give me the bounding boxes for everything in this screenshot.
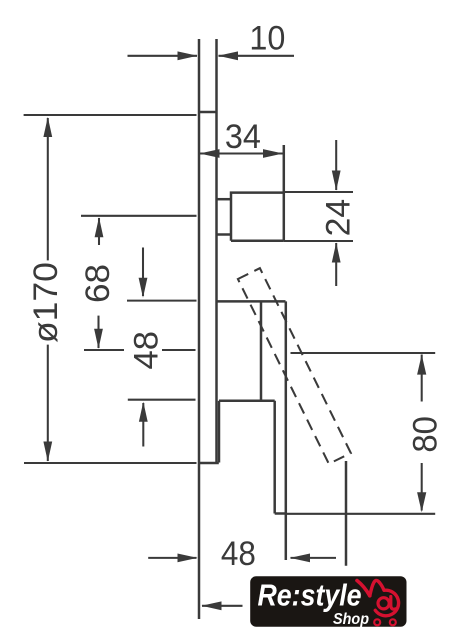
dim 48 bottom left-arrow line (291, 557, 337, 559)
arrowhead wall pointer (points left) (202, 601, 222, 610)
dim 34 line (200, 152, 283, 154)
arrowhead 24 upper (points down) (332, 171, 341, 191)
dim 68 bottom ext line right (162, 349, 196, 351)
svg-text:48: 48 (221, 535, 256, 573)
spout column left edge (273, 401, 276, 514)
dim 48 down arrow line (142, 248, 144, 297)
arrowhead 48 up (points up) (139, 402, 148, 422)
svg-text:Shop: Shop (333, 611, 369, 628)
logo @ inner stem (391, 597, 396, 610)
dim 68 top ext line (81, 215, 197, 217)
arrowhead 48 bottom right (points right) (178, 554, 198, 563)
wall pointer arrow line (202, 605, 243, 607)
logo @ inner bowl (378, 598, 389, 609)
dim 170 line upper (47, 118, 49, 260)
logo wheel right (390, 619, 396, 625)
arrowhead 10 left (points right) (178, 51, 198, 60)
body left lower edge (218, 401, 221, 463)
svg-text:10: 10 (249, 20, 285, 58)
dim 10 right arrow line (219, 55, 295, 57)
knob stem top (217, 198, 232, 201)
logo box (250, 576, 406, 627)
dim 80 lower arrow line (421, 463, 423, 511)
spout column bottom cap (275, 512, 286, 515)
dim 80 top ext line (291, 352, 436, 354)
arrowhead 24 lower (points up) (332, 243, 341, 263)
arrowhead 34 right (points right) (263, 149, 283, 158)
dim 68 down arrow line (97, 316, 99, 348)
arrowhead 68 up (points up) (95, 217, 104, 237)
arrowhead 48 down (points down) (139, 278, 148, 298)
svg-text:48: 48 (127, 331, 165, 370)
dim 48 top ext line (127, 300, 197, 302)
dim 170 top ext line (24, 114, 197, 116)
dim 48 up arrow line (142, 403, 144, 447)
arrowhead 48 bottom left (points left) (290, 554, 310, 563)
plate right edge (215, 39, 218, 463)
dim 24 top ext line (284, 191, 353, 193)
body inner vertical (260, 301, 263, 400)
dim 170 bottom ext line (24, 462, 197, 464)
logo cart handle (357, 581, 370, 596)
arrowhead 80 up (points up) (417, 355, 426, 375)
svg-text:ø170: ø170 (27, 262, 65, 343)
svg-text:80: 80 (407, 416, 445, 453)
dim 80 upper arrow line (421, 355, 423, 402)
svg-text:68: 68 (79, 264, 117, 303)
logo wheel left (374, 619, 380, 625)
dim 48 bottom ext line (128, 399, 196, 401)
svg-text:34: 34 (225, 118, 261, 156)
dim 80 bottom ext line (287, 513, 435, 515)
arrowhead 34 left (points left) (200, 149, 220, 158)
dim 24 bottom ext line (284, 240, 353, 242)
body lower step horizontal (219, 400, 275, 403)
dim 68 up arrow line (98, 218, 100, 245)
arrowhead 80 down (points down) (417, 492, 426, 512)
svg-text:Re:style: Re:style (258, 578, 362, 613)
svg-text:24: 24 (319, 199, 357, 237)
dim 170 line lower (47, 345, 49, 461)
logo @ outer ring with flourish (370, 580, 399, 615)
knob outline (231, 193, 284, 241)
knob right edge / extension line (283, 145, 286, 241)
plate section tick top (199, 111, 218, 114)
body right edge (285, 301, 288, 560)
lever tip projection line (345, 461, 348, 566)
arrowhead 170 bottom (points down) (43, 442, 52, 462)
dim 68 bottom ext line left (84, 349, 124, 351)
plate bottom cap (199, 462, 219, 465)
body top edge (217, 300, 286, 303)
dim 48 bottom right-arrow line (148, 557, 196, 559)
lever handle (dashed, rotated) (238, 268, 351, 464)
dim 10 left arrow line (128, 55, 198, 57)
arrowhead 170 top (points up) (43, 117, 52, 137)
wall line (plate left edge) (198, 39, 201, 619)
dim 24 lower arrow line (335, 243, 337, 286)
knob stem bottom (217, 233, 232, 236)
arrowhead 10 right (points left) (218, 51, 238, 60)
arrowhead 68 down (points down) (94, 329, 103, 349)
dim 24 upper arrow line (335, 140, 337, 190)
